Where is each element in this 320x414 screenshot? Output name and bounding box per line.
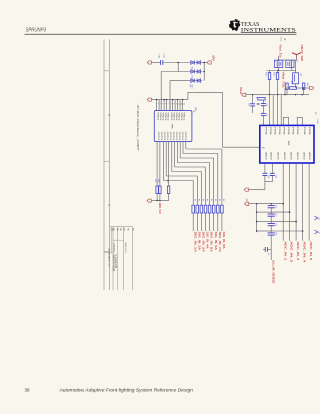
staircase bus wires: [162, 142, 164, 181]
capacitor C42 vertical: [270, 172, 275, 174]
svg-text:GND_ISO: GND_ISO: [158, 203, 161, 214]
svg-text:R43: R43: [166, 179, 168, 182]
svg-text:Q3: Q3: [299, 74, 301, 76]
svg-text:ADC0: ADC0: [303, 152, 306, 160]
svg-text:9: 9: [175, 103, 177, 104]
svg-text:R64: R64: [306, 83, 308, 86]
hline cap3-cap4 junction: [257, 230, 272, 232]
svg-text:SIG_IN_3A: SIG_IN_3A: [202, 232, 205, 253]
svg-text:VIN12: VIN12: [173, 112, 175, 122]
wire from Vbat label down: [278, 56, 280, 60]
svg-text:SCH-AFL-07: SCH-AFL-07: [108, 248, 111, 268]
capacitor C52: [268, 213, 275, 215]
svg-text:38: 38: [25, 388, 31, 393]
svg-text:2: 2: [157, 103, 159, 104]
title block outer vline: [112, 227, 114, 290]
svg-text:ADC0: ADC0: [296, 152, 299, 160]
dual diode D13 row3: [189, 80, 202, 82]
port VZ (right of diodes): [207, 61, 211, 64]
wires from box bottom down long: [282, 163, 284, 240]
wire vline x222.5 down: [222, 92, 224, 147]
svg-text:SIG_IN_4A: SIG_IN_4A: [206, 232, 209, 249]
svg-text:ADC0: ADC0: [283, 152, 286, 160]
svg-text:ADC_IN_3: ADC_IN_3: [296, 241, 299, 261]
wire hline row3 left: [170, 80, 189, 82]
node x258 y104: [257, 103, 258, 104]
svg-text:C53: C53: [275, 223, 277, 226]
svg-text:Vbat_T1a: Vbat_T1a: [279, 45, 282, 59]
svg-text:ADC_IN_5: ADC_IN_5: [309, 241, 312, 261]
svg-text:ADC0: ADC0: [290, 152, 293, 160]
wires from Vbat rail down into box top: [269, 95, 271, 126]
wire R61 top: [269, 71, 271, 73]
resistor R62 vertical: [276, 73, 278, 80]
svg-text:SN65: SN65: [171, 124, 173, 129]
sheet border inner line: [108, 40, 110, 291]
svg-text:OUT12: OUT12: [184, 132, 186, 142]
wire R41 R42 bottoms to hline200: [156, 194, 158, 201]
svg-text:VIN12: VIN12: [164, 112, 166, 122]
svg-text:C51: C51: [275, 205, 277, 208]
svg-text:11: 11: [180, 103, 182, 105]
svg-text:Q1: Q1: [274, 60, 276, 63]
node hline200: [156, 200, 157, 201]
svg-text:ADC0: ADC0: [270, 152, 273, 160]
svg-text:OUT12: OUT12: [166, 132, 168, 142]
svg-text:R66: R66: [284, 83, 286, 86]
wire transistor top rail: [279, 59, 297, 61]
title block vline 2: [110, 227, 112, 253]
svg-text:VBAT_SW: VBAT_SW: [300, 45, 303, 62]
svg-text:ADC_IN_1: ADC_IN_1: [283, 241, 286, 261]
wire Q2 down: [291, 68, 293, 71]
resistor R63 horizontal: [290, 87, 297, 90]
sheet zone tick 2: [104, 160, 109, 162]
wire caps common hline: [265, 181, 272, 183]
svg-text:R62: R62: [272, 73, 274, 76]
transistor Q2: [286, 60, 294, 67]
svg-text:C34: C34: [265, 113, 267, 116]
svg-text:10: 10: [178, 103, 180, 105]
port J-IN1 (left, to hline1): [147, 61, 151, 64]
svg-text:VIN12: VIN12: [180, 112, 182, 122]
svg-text:B: B: [107, 114, 111, 116]
resistor R66 left of Q3: [286, 83, 288, 90]
wire vline x178 hline1-row2: [177, 63, 179, 72]
node R64-R63: [303, 87, 304, 88]
svg-text:OUT12: OUT12: [169, 132, 171, 142]
node row1-x204: [203, 62, 205, 64]
capacitor C31 series on hline1: [160, 60, 162, 65]
port VOUT right: [310, 86, 314, 89]
wire Q3 top to Q2: [295, 71, 297, 73]
title block divider hline 2: [104, 252, 114, 254]
port J-IN2 (left, to hline2): [147, 98, 151, 101]
svg-text:CUSTOM A4: CUSTOM A4: [112, 243, 115, 253]
capacitor C34 vertical: [261, 112, 266, 114]
svg-text:R5: R5: [218, 199, 220, 201]
resistor R64 vertical: [302, 83, 304, 90]
resistor array R51-R58: [192, 205, 195, 213]
wire R63 right to port: [296, 87, 309, 89]
svg-text:R5: R5: [202, 199, 204, 201]
svg-text:8: 8: [173, 103, 175, 104]
svg-text:R61: R61: [264, 73, 266, 76]
port VBAT left: [242, 93, 246, 96]
wire R63 left: [285, 87, 290, 89]
svg-text:SIG_IN_7A: SIG_IN_7A: [218, 232, 221, 253]
svg-text:C42: C42: [274, 175, 276, 178]
svg-text:ILLUM_SENSE: ILLUM_SENSE: [272, 261, 275, 284]
wire vline x204 diode bus: [203, 63, 205, 81]
wires below resistor row: [192, 213, 194, 231]
capacitor C32 on vertical wire: [252, 95, 254, 104]
svg-text:12: 12: [183, 103, 185, 105]
sheet border outer line: [103, 40, 105, 291]
svg-text:VIN12: VIN12: [157, 112, 159, 122]
svg-text:R63: R63: [290, 81, 292, 84]
svg-text:ADC0: ADC0: [277, 152, 280, 160]
wire hline row2 left: [161, 71, 189, 73]
wire vline x170 row3 to IC pin: [169, 81, 171, 111]
svg-text:R5: R5: [198, 199, 200, 201]
svg-text:4: 4: [161, 103, 163, 104]
svg-text:C5: C5: [267, 253, 269, 255]
wire R64 top: [303, 88, 305, 90]
wire R62 top: [277, 71, 279, 73]
dual diode D12 row2: [189, 71, 202, 73]
wire vline x295.5 rail to R63 net: [295, 60, 297, 71]
svg-text:SIG_IN_1A: SIG_IN_1A: [193, 232, 196, 253]
wire IC bottom pin1 down: [156, 142, 158, 186]
wire Q1 down: [278, 68, 280, 71]
capacitor C41 vertical: [263, 172, 268, 174]
svg-text:OUT12: OUT12: [175, 132, 177, 142]
wire hline y203.7 from port: [249, 203, 283, 205]
wire hline y92.4 to x222.5: [188, 91, 223, 93]
wire hline y70.5 under transistors: [267, 70, 292, 72]
svg-text:SPRUNP3: SPRUNP3: [26, 28, 47, 34]
svg-text:5: 5: [164, 103, 166, 104]
wire vline x187.9 hline2 up: [187, 92, 189, 99]
port GND-left: [147, 199, 151, 202]
transistor Q1: [275, 60, 283, 67]
header rule: [25, 33, 297, 35]
svg-text:SIG_IN_8A: SIG_IN_8A: [222, 232, 225, 249]
wire bridge on box top pins 1: [282, 117, 284, 125]
svg-text:C41: C41: [267, 175, 269, 178]
wire box bottom pin x272 down: [271, 163, 273, 171]
wire below C55: [270, 249, 272, 260]
wire caps to ground port: [264, 182, 266, 190]
wire IC bottom pin3 down to R43: [168, 142, 170, 186]
svg-text:C33: C33: [265, 103, 267, 106]
svg-text:Vbat: Vbat: [239, 87, 242, 94]
capacitor C51: [268, 205, 275, 207]
node hline1-x178: [177, 62, 179, 64]
svg-text:7: 7: [170, 103, 172, 104]
wire hline1 right of cap: [163, 62, 190, 64]
svg-text:R5: R5: [193, 199, 195, 201]
svg-text:SIG_IN_2A: SIG_IN_2A: [197, 232, 200, 251]
sheet top zone tick: [280, 37, 282, 42]
title block vline 3: [117, 227, 119, 290]
wire IC top pin stubs: [156, 100, 158, 111]
wire hline y147.2 to box left pin: [223, 146, 260, 148]
capacitor C55 bottom: [264, 247, 266, 252]
svg-text:OUT12: OUT12: [157, 132, 159, 142]
microcontroller U40 box: [260, 125, 314, 163]
wire R61 bottom to rail: [269, 80, 271, 95]
svg-text:ADC_IN_2: ADC_IN_2: [290, 241, 293, 263]
sheet zone tick 3: [104, 251, 109, 253]
nodes on Vbat rail: [252, 94, 253, 95]
svg-text:VIN12: VIN12: [175, 112, 177, 122]
svg-text:6: 6: [167, 103, 169, 104]
wire hline y200.6: [152, 200, 169, 202]
wire Vbat rail hline: [246, 94, 309, 96]
svg-text:3: 3: [159, 103, 161, 104]
wire hline2: [152, 99, 188, 101]
svg-text:VIN12: VIN12: [178, 112, 180, 122]
svg-text:VIN12: VIN12: [170, 112, 172, 122]
node row2-x204: [203, 71, 205, 73]
svg-text:5V: 5V: [211, 55, 213, 62]
wire hline y104 stub: [256, 103, 259, 105]
svg-text:OUT12: OUT12: [178, 132, 180, 142]
IC U30 pin1 mark: [193, 111, 194, 112]
hline cap1-cap2 junction: [257, 211, 272, 213]
svg-text:R5: R5: [206, 199, 208, 201]
nodes on hline2: [156, 99, 157, 100]
svg-text:ADC0: ADC0: [308, 152, 311, 160]
svg-text:OUT12: OUT12: [172, 132, 174, 142]
capacitor C54: [268, 232, 275, 234]
net arrow right edge 1: [315, 216, 319, 220]
svg-text:R5: R5: [214, 199, 216, 201]
svg-text:ADC0: ADC0: [264, 152, 267, 160]
svg-text:OUT12: OUT12: [160, 132, 162, 142]
title block top hline: [109, 226, 132, 228]
left rail vline x256.6: [256, 204, 258, 233]
svg-text:J7 Interface Bd: J7 Interface Bd: [114, 254, 117, 269]
net arrow right edge 2: [315, 230, 319, 234]
svg-text:R42: R42: [157, 179, 159, 182]
wire IC bottom pin2 down: [159, 142, 161, 186]
wire box bottom pin x265 down: [264, 163, 266, 171]
wire row1 to node204: [202, 62, 207, 64]
svg-text:SIG_IN_5A: SIG_IN_5A: [210, 232, 213, 253]
svg-text:VIN12: VIN12: [161, 112, 163, 122]
title block divider hline: [113, 239, 124, 241]
svg-text:MSP: MSP: [287, 141, 289, 146]
svg-text:“J7-E2 Interface_GSH”: “J7-E2 Interface_GSH”: [136, 103, 140, 152]
hline cap2-cap3 junction: [257, 221, 272, 223]
wire bridge on box top pins 2: [296, 117, 298, 125]
svg-text:OUT12: OUT12: [163, 132, 165, 142]
svg-text:VIN12: VIN12: [167, 112, 169, 122]
svg-text:R5: R5: [222, 199, 224, 201]
title block vline 4: [123, 227, 125, 290]
wire R62 bottom to rail: [277, 80, 279, 95]
op-amp/transceiver IC U30 body: [154, 111, 192, 142]
port GND2 left: [244, 188, 248, 191]
sheet zone tick 1: [104, 70, 109, 72]
power flag VBAT_SW: [292, 53, 301, 55]
wire vline x161 row2 to IC pin: [160, 72, 162, 111]
svg-text:R5: R5: [210, 199, 212, 201]
svg-text:SIG_IN_6A: SIG_IN_6A: [214, 232, 217, 251]
svg-text:ADC_IN_4: ADC_IN_4: [303, 241, 306, 263]
capacitor C33 on vertical wire: [262, 100, 264, 103]
nodes on hline y203.7: [256, 203, 257, 204]
svg-text:C32: C32: [248, 103, 250, 106]
svg-text:SHEET 8 OF 12: SHEET 8 OF 12: [124, 242, 126, 254]
resistor R65 horizontal: [258, 97, 265, 100]
mosfet Q3 box: [293, 73, 299, 84]
svg-text:VIN12: VIN12: [183, 112, 185, 122]
svg-text:VIN12: VIN12: [159, 112, 161, 122]
wire Q3 bottom: [295, 84, 297, 88]
svg-text:C52: C52: [275, 213, 277, 216]
svg-text:Automotive Adaptive Front-ligh: Automotive Adaptive Front-lighting Syste…: [58, 388, 193, 393]
wire hline1 left of cap: [152, 62, 161, 64]
port VCC3 left: [245, 202, 249, 205]
resistor R43 vertical: [167, 186, 169, 194]
svg-text:R41: R41: [154, 179, 156, 182]
svg-text:OUT12: OUT12: [181, 132, 183, 142]
svg-text:C54: C54: [275, 232, 277, 235]
resistor R42 vertical: [159, 186, 161, 194]
TI logo bug: [229, 19, 240, 31]
resistor R61 vertical: [268, 73, 270, 80]
resistor R41 vertical: [156, 186, 158, 194]
title block vline 5: [132, 227, 134, 290]
dual diode D11 row1: [189, 62, 202, 64]
capacitor C53: [268, 223, 275, 225]
node under Q1: [278, 70, 279, 71]
